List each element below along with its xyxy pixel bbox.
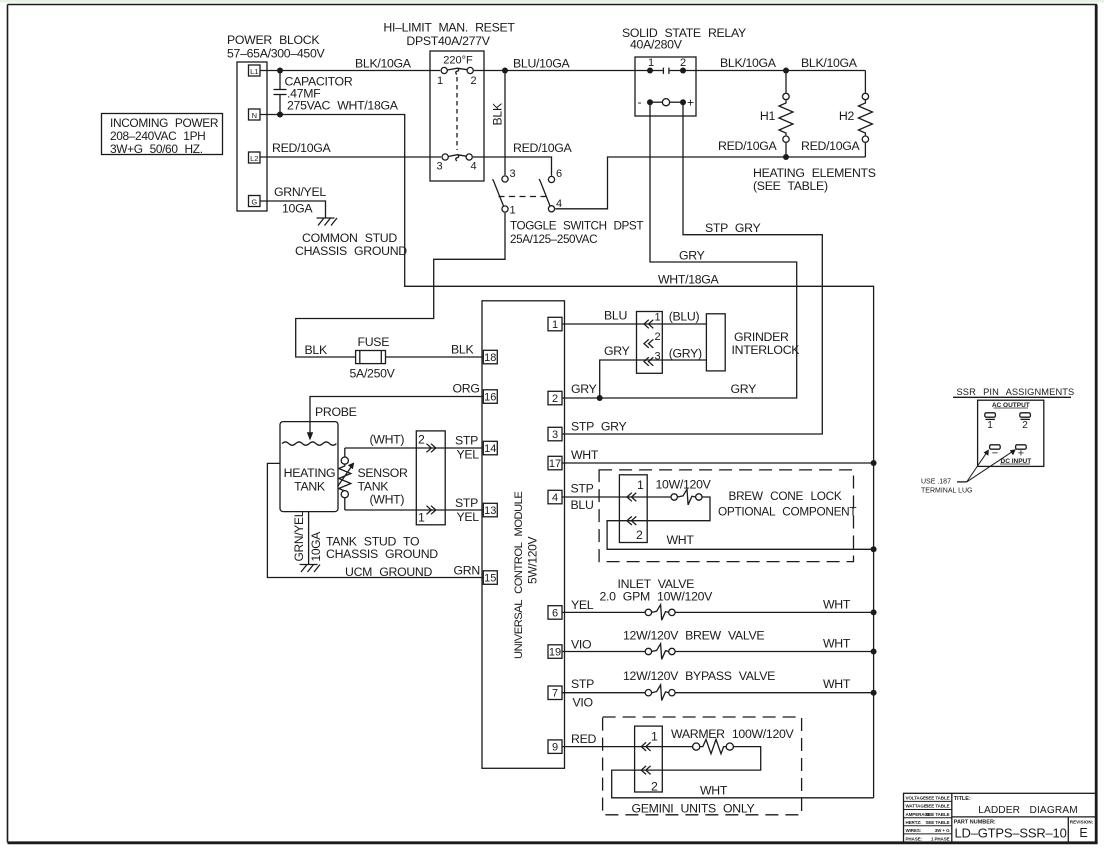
hi-limit contact 4 (466, 154, 472, 160)
wire UCM terminal 19 VIO to brew valve (562, 651, 645, 653)
sensor connector chevrons pin1 (427, 506, 436, 515)
svg-text:19: 19 (549, 647, 561, 659)
wire fuse to UCM terminal 18 (386, 356, 484, 358)
svg-text:REVISION:: REVISION: (1070, 819, 1094, 824)
wire SSR minus GRY run to UCM terminal 2 (562, 102, 797, 398)
svg-text:2: 2 (1022, 420, 1028, 431)
svg-text:VIO: VIO (573, 696, 593, 710)
svg-text:GRY: GRY (731, 382, 757, 396)
node WHT rail brew cone (871, 546, 877, 552)
svg-text:WHT: WHT (700, 784, 728, 798)
svg-text:7: 7 (552, 688, 558, 700)
warmer connector J4 box (635, 726, 663, 792)
svg-text:TOGGLE SWITCH DPST: TOGGLE SWITCH DPST (510, 220, 643, 233)
brew cone chevrons pin2 (627, 516, 636, 525)
capacitor C1 .47MF (274, 71, 287, 115)
svg-text:OPTIONAL COMPONENT: OPTIONAL COMPONENT (718, 505, 856, 519)
svg-text:4: 4 (471, 161, 477, 173)
svg-text:BLU: BLU (571, 498, 594, 512)
svg-text:BLK/10GA: BLK/10GA (720, 56, 777, 70)
svg-text:4: 4 (552, 492, 558, 504)
brew valve coil V2 (645, 644, 675, 660)
svg-text:HEATING: HEATING (284, 466, 336, 480)
svg-text:YEL: YEL (571, 598, 594, 612)
sensor connector J1 box (416, 431, 445, 525)
svg-text:SEE TABLE: SEE TABLE (925, 796, 949, 801)
svg-text:1: 1 (418, 511, 425, 525)
label INLET VALVE (600, 577, 714, 604)
svg-text:BLK: BLK (305, 343, 328, 357)
heating element H2 (858, 71, 872, 158)
wire toggle pin1 to fuse BLK (296, 213, 505, 357)
SSR lug 2 (1020, 413, 1031, 431)
node WHT rail brew valve (871, 649, 877, 655)
svg-text:USE .187: USE .187 (921, 479, 951, 486)
svg-text:15: 15 (484, 573, 496, 585)
svg-text:RED/10GA: RED/10GA (801, 139, 861, 153)
terminal N (249, 109, 261, 120)
hi-limit bottom blade (448, 155, 466, 157)
svg-text:16: 16 (484, 392, 496, 404)
svg-text:WHT: WHT (823, 637, 851, 651)
tank stud chassis ground symbol (300, 565, 320, 573)
svg-text:STP GRY: STP GRY (571, 420, 627, 434)
svg-text:YEL: YEL (457, 448, 480, 462)
svg-text:3W+G 50/60 HZ.: 3W+G 50/60 HZ. (110, 142, 203, 156)
hi-limit link dashed (456, 77, 458, 150)
wire brew valve to WHT rail (675, 651, 874, 653)
svg-text:(WHT): (WHT) (370, 433, 405, 447)
svg-text:L1: L1 (250, 67, 258, 76)
svg-text:TANK: TANK (294, 480, 326, 494)
SSR pin assignments box (978, 400, 1044, 466)
power block label (227, 33, 325, 61)
svg-text:−: − (992, 448, 998, 460)
label common stud chassis ground (295, 231, 407, 258)
svg-text:220°F: 220°F (443, 55, 473, 67)
svg-text:N: N (252, 111, 257, 120)
svg-text:(SEE TABLE): (SEE TABLE) (753, 179, 828, 193)
solid state relay U1 box (635, 57, 696, 116)
wire brew cone return loop (607, 497, 874, 549)
svg-text:2: 2 (636, 528, 643, 542)
svg-text:57–65A/300–450V: 57–65A/300–450V (227, 47, 325, 61)
toggle contact 1 (502, 206, 508, 212)
svg-text:40A/280V: 40A/280V (630, 38, 683, 52)
svg-text:3: 3 (655, 351, 661, 363)
svg-text:COMMON STUD: COMMON STUD (302, 231, 397, 245)
svg-text:HI–LIMIT MAN. RESET: HI–LIMIT MAN. RESET (383, 21, 515, 35)
svg-text:BREW CONE LOCK: BREW CONE LOCK (729, 489, 842, 503)
svg-text:1: 1 (651, 730, 658, 744)
wire SSR pin2 to heating elements BLK (669, 70, 866, 72)
node H1 top junction (783, 68, 789, 74)
label GRINDER INTERLOCK (732, 330, 801, 357)
svg-text:SENSOR: SENSOR (358, 466, 409, 480)
hi-limit thermostat S1 box (430, 51, 484, 181)
brew cone lock dashed box (599, 470, 853, 562)
wire SSR plus STP GRY run to UCM terminal 3 (562, 102, 822, 434)
grinder connector J2 box (637, 312, 663, 374)
label GRN/YEL 10GA (274, 185, 326, 216)
node N-capacitor junction (277, 112, 283, 118)
svg-text:VIO: VIO (571, 638, 591, 652)
SSR DC minus node (647, 99, 653, 105)
wire L2 to hi-limit pin3 RED/10GA (260, 156, 441, 158)
svg-text:ORG: ORG (453, 382, 480, 396)
revision divider (1067, 817, 1069, 843)
label BREW CONE LOCK OPTIONAL COMPONENT (718, 489, 856, 519)
brew cone coil solenoid (671, 489, 702, 505)
svg-text:BLK: BLK (491, 102, 505, 125)
svg-text:STP: STP (455, 496, 478, 510)
SSR DC plus node (680, 99, 686, 105)
svg-text:GRN/YEL: GRN/YEL (274, 185, 326, 199)
svg-text:SEE TABLE: SEE TABLE (925, 812, 949, 817)
UCM terminal 17 (548, 456, 562, 470)
wire G green/yellow to chassis ground (260, 201, 326, 218)
svg-text:3: 3 (437, 161, 443, 173)
wire bypass valve to WHT rail (675, 692, 874, 694)
title area divider (952, 816, 1096, 818)
title block outline (904, 793, 1097, 842)
svg-text:3: 3 (552, 429, 558, 441)
wire inlet valve to WHT rail (675, 611, 874, 613)
wire UCM terminal 6 YEL to inlet valve (562, 611, 645, 613)
svg-text:BLK/10GA: BLK/10GA (355, 57, 412, 71)
wire UCM terminal 7 STP VIO to bypass valve (562, 692, 645, 694)
terminal G (249, 196, 261, 207)
grinder chevrons pin2 (644, 339, 653, 348)
svg-text:CHASSIS GROUND: CHASSIS GROUND (295, 244, 407, 258)
svg-text:INTERLOCK: INTERLOCK (732, 343, 801, 357)
label USE .187 TERMINAL LUG (921, 479, 972, 495)
wire hi-limit pin4 to toggle pin6 (473, 157, 552, 176)
svg-text:G: G (251, 198, 257, 207)
title block table divider vertical (951, 793, 953, 842)
svg-text:INCOMING POWER: INCOMING POWER (110, 116, 219, 130)
UCM terminal 18 (483, 350, 497, 364)
wire L1 to hi-limit pin1 BLK/10GA (260, 70, 440, 72)
toggle contact 4 (548, 206, 554, 212)
UCM terminal 1 (548, 317, 562, 331)
wire UCM terminal 17 WHT to rail (562, 462, 874, 464)
UCM terminal 19 (548, 645, 562, 659)
label AC OUTPUT (992, 402, 1030, 409)
power block terminal strip TB1 (237, 62, 267, 211)
toggle switch S2 contact 3 (502, 176, 508, 182)
SSR lug 1 (985, 413, 996, 431)
svg-text:(GRY): (GRY) (669, 347, 702, 361)
svg-text:WHT/18GA: WHT/18GA (658, 273, 720, 287)
SSR output contact symbol (663, 68, 669, 74)
svg-text:HERTZ:: HERTZ: (906, 820, 922, 825)
svg-text:2: 2 (471, 75, 477, 87)
svg-text:1: 1 (987, 420, 993, 431)
svg-text:POWER BLOCK: POWER BLOCK (227, 33, 320, 47)
svg-text:GEMINI UNITS ONLY: GEMINI UNITS ONLY (632, 802, 755, 816)
svg-text:10GA: 10GA (282, 202, 313, 216)
svg-text:WHT: WHT (823, 677, 851, 691)
svg-text:25A/125–250VAC: 25A/125–250VAC (510, 233, 597, 246)
node H1 bottom junction (783, 154, 789, 160)
node BLK branch junction (502, 68, 508, 74)
svg-text:STP: STP (571, 482, 594, 496)
svg-text:CHASSIS GROUND: CHASSIS GROUND (326, 547, 438, 561)
svg-text:9: 9 (552, 742, 558, 754)
sensor upper contact (341, 457, 348, 464)
title block table texts (906, 796, 951, 842)
universal control module U2 box (482, 301, 565, 769)
svg-text:STP: STP (571, 677, 594, 691)
SSR pin2 node (680, 68, 686, 74)
svg-text:GRY: GRY (679, 249, 705, 263)
UCM terminal 13 (483, 503, 497, 517)
label STP YEL terminal14 (455, 434, 479, 462)
svg-text:1: 1 (648, 57, 654, 69)
sensor resistor upper wire (344, 448, 346, 457)
svg-text:275VAC WHT/18GA: 275VAC WHT/18GA (287, 99, 399, 113)
svg-text:5W/120V: 5W/120V (526, 536, 540, 584)
svg-text:(WHT): (WHT) (370, 493, 405, 507)
svg-text:6: 6 (556, 168, 562, 180)
grinder chevrons pin3 (644, 357, 653, 366)
svg-text:18: 18 (484, 352, 496, 364)
heating element H1 (779, 71, 793, 158)
wire BLK vertical to toggle pin3 (504, 71, 506, 176)
brew cone connector J3 box (619, 475, 647, 543)
heating tank box (280, 422, 338, 512)
svg-text:3W + G: 3W + G (935, 828, 950, 833)
svg-text:RED: RED (571, 732, 596, 746)
svg-text:1: 1 (552, 319, 558, 331)
wire N to WHT/18GA run (down and across) (260, 115, 874, 798)
UCM terminal 2 (548, 391, 562, 405)
svg-text:L2: L2 (250, 154, 258, 163)
wire sensor lower to UCM terminal 13 (345, 509, 484, 511)
svg-text:WHT: WHT (571, 448, 599, 462)
grinder interlock switch block (706, 314, 725, 371)
warmer chevrons pin1 (641, 742, 650, 751)
svg-text:RED/10GA: RED/10GA (272, 141, 332, 155)
svg-text:+: + (687, 96, 694, 110)
wire UCM ground GRN terminal 15 to tank (267, 463, 483, 577)
svg-text:2: 2 (651, 780, 658, 794)
svg-text:SEE TABLE: SEE TABLE (925, 804, 949, 809)
svg-text:GRY: GRY (571, 382, 597, 396)
svg-text:FUSE: FUSE (358, 335, 390, 349)
terminal L1 (249, 65, 261, 76)
svg-text:SEE TABLE: SEE TABLE (925, 820, 949, 825)
svg-text:2: 2 (418, 433, 425, 447)
terminal L2 (249, 152, 261, 163)
svg-text:H2: H2 (839, 109, 855, 123)
wire hi-limit pin2 to SSR pin1 BLU/10GA (474, 70, 663, 72)
bypass valve coil V3 (645, 685, 675, 701)
node WHT rail inlet (871, 609, 877, 615)
svg-text:YEL: YEL (457, 510, 480, 524)
node L1-capacitor junction (277, 68, 283, 74)
sensor connector chevrons pin2 (427, 444, 436, 453)
wire grinder pin3 GRY (600, 360, 707, 398)
svg-text:TERMINAL LUG: TERMINAL LUG (921, 488, 972, 495)
svg-text:PROBE: PROBE (315, 405, 357, 419)
label STP VIO (571, 677, 594, 710)
node WHT rail t17 (871, 460, 877, 466)
toggle pin labels 3 6 1 4 (510, 168, 563, 217)
sensor arrow (338, 462, 355, 486)
title block table rows (904, 801, 952, 834)
svg-text:DPST40A/277V: DPST40A/277V (406, 34, 490, 48)
UCM terminal 4 (548, 490, 562, 504)
label toggle switch (510, 220, 643, 247)
svg-text:6: 6 (552, 607, 558, 619)
svg-text:UNIVERSAL CONTROL MODULE: UNIVERSAL CONTROL MODULE (513, 492, 525, 659)
wire toggle pin4 up to heating element rail RED (555, 157, 865, 209)
wire UCM terminal 16 ORG to probe (310, 397, 483, 433)
svg-text:12W/120V BYPASS VALVE: 12W/120V BYPASS VALVE (623, 669, 775, 683)
toggle blade pole B (539, 179, 550, 206)
svg-text:1: 1 (637, 478, 644, 492)
SSR lug minus (990, 445, 1001, 460)
sensor lower contact (341, 491, 348, 498)
hi-limit contact 3 (442, 154, 448, 160)
svg-text:BLU/10GA: BLU/10GA (513, 57, 570, 71)
warmer chevrons pin2 (641, 766, 650, 775)
svg-text:2: 2 (680, 57, 686, 69)
UCM terminal 3 (548, 427, 562, 441)
inlet valve coil V1 (645, 605, 675, 621)
svg-text:SSR PIN ASSIGNMENTS: SSR PIN ASSIGNMENTS (957, 387, 1075, 397)
SSR pin1 node (647, 68, 653, 74)
svg-text:STP: STP (455, 434, 478, 448)
UCM terminal 14 (483, 441, 497, 455)
svg-text:208–240VAC 1PH: 208–240VAC 1PH (110, 129, 205, 143)
svg-text:PHASE:: PHASE: (906, 836, 923, 841)
label STP YEL terminal13 (455, 496, 479, 524)
wire UCM terminal 9 RED to warmer (562, 746, 693, 748)
svg-text:2: 2 (655, 331, 661, 343)
fuse F1 body (356, 351, 386, 364)
svg-text:-: - (638, 95, 642, 109)
hi-limit contact 2 (467, 67, 473, 73)
svg-text:(BLU): (BLU) (669, 310, 700, 324)
SSR lug plus (1016, 445, 1027, 460)
svg-text:STP GRY: STP GRY (705, 221, 761, 235)
wire UCM terminal 4 STP BLU to coil (562, 496, 671, 498)
toggle contact 6 (548, 176, 554, 182)
toggle tie dashed (499, 196, 547, 198)
svg-text:12W/120V BREW VALVE: 12W/120V BREW VALVE (623, 629, 764, 643)
svg-text:E: E (1079, 826, 1087, 840)
capacitor value labels (285, 75, 399, 113)
svg-text:WHT: WHT (823, 598, 851, 612)
incoming power note box (102, 114, 223, 157)
wire sensor upper to UCM terminal 14 (345, 447, 484, 449)
hi-limit title (383, 21, 515, 49)
probe arrowhead (307, 432, 313, 440)
svg-text:RED/10GA: RED/10GA (718, 139, 778, 153)
hi-limit contact 1 (441, 67, 447, 73)
svg-text:BLK/10GA: BLK/10GA (801, 56, 858, 70)
heating tank water line (282, 442, 336, 445)
wire UCM terminal 1 BLU to grinder connector (562, 323, 706, 325)
common stud chassis ground symbol (317, 218, 338, 226)
svg-text:H1: H1 (760, 109, 776, 123)
svg-text:17: 17 (549, 458, 561, 470)
svg-text:GRY: GRY (604, 344, 630, 358)
UCM terminal 16 (483, 390, 497, 404)
SSR DC control circle (650, 99, 683, 106)
warmer resistor R1 (693, 739, 734, 753)
hi-limit top blade (447, 68, 467, 70)
label tank stud to chassis ground (326, 535, 438, 562)
svg-text:UCM GROUND: UCM GROUND (345, 565, 432, 579)
svg-text:2: 2 (552, 393, 558, 405)
svg-text:13: 13 (484, 505, 496, 517)
svg-text:WIRES:: WIRES: (906, 828, 922, 833)
svg-text:1 PHASE: 1 PHASE (931, 836, 950, 841)
svg-text:WHT: WHT (667, 533, 695, 547)
svg-text:10W/120V: 10W/120V (656, 478, 712, 492)
svg-text:BLU: BLU (604, 309, 627, 323)
sensor thermistor zigzag (339, 464, 351, 491)
UCM terminal 9 (548, 740, 562, 754)
svg-text:WARMER 100W/120V: WARMER 100W/120V (671, 727, 795, 741)
svg-text:14: 14 (484, 443, 496, 455)
grinder chevrons pin1 (644, 320, 653, 329)
page top green tint line (0, 0, 1104, 3)
brew cone chevrons pin1 (627, 493, 636, 502)
svg-text:BLK: BLK (451, 343, 474, 357)
sensor lower wire (344, 498, 346, 510)
svg-text:TANK: TANK (358, 480, 390, 494)
svg-text:GRN: GRN (454, 564, 480, 578)
svg-text:PART NUMBER:: PART NUMBER: (954, 819, 996, 825)
SSR pin assignments title (953, 387, 1074, 397)
svg-text:HEATING ELEMENTS: HEATING ELEMENTS (753, 166, 876, 180)
label sensor tank (358, 466, 409, 494)
svg-text:GRN/YEL: GRN/YEL (292, 510, 306, 561)
svg-text:2.0 GPM 10W/120V: 2.0 GPM 10W/120V (600, 590, 714, 604)
toggle blade pole A (493, 179, 504, 206)
lug pointer lines (957, 449, 1016, 482)
tank stud wire (308, 512, 310, 565)
solid state relay title (622, 26, 746, 52)
svg-text:RED/10GA: RED/10GA (513, 141, 573, 155)
svg-text:LADDER DIAGRAM: LADDER DIAGRAM (978, 805, 1078, 816)
gemini warmer dashed box (603, 717, 802, 815)
label STP BLU terminal4 (571, 482, 594, 513)
UCM terminal 6 (548, 606, 562, 620)
node GRY junction (597, 395, 603, 401)
node WHT rail bypass (871, 690, 877, 696)
svg-text:LD–GTPS–SSR–10: LD–GTPS–SSR–10 (955, 826, 1067, 841)
svg-text:1: 1 (510, 205, 516, 217)
svg-text:10GA: 10GA (309, 532, 323, 562)
label DC INPUT (1000, 458, 1031, 465)
label heating elements (753, 166, 876, 193)
svg-text:3: 3 (510, 168, 516, 180)
wire warmer return loop (612, 747, 874, 798)
svg-text:1: 1 (437, 75, 443, 87)
svg-text:5A/250V: 5A/250V (350, 367, 396, 381)
UCM terminal 15 (483, 571, 497, 585)
svg-text:GRINDER: GRINDER (734, 330, 789, 344)
svg-text:1: 1 (655, 312, 661, 324)
label heating tank (284, 466, 336, 494)
UCM terminal 7 (548, 686, 562, 700)
